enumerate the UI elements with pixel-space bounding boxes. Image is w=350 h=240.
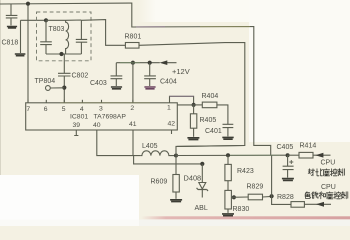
- node C405 junction: [286, 153, 290, 157]
- svg-text:39: 39: [73, 122, 81, 129]
- pink scan line bottom: [141, 216, 350, 219]
- svg-text:4: 4: [80, 106, 84, 113]
- svg-text:C401: C401: [205, 128, 222, 135]
- arrow +12V: [160, 60, 168, 65]
- ground (T803 left): [15, 54, 26, 56]
- wire R414 to arrow: [313, 154, 331, 156]
- node R423 junction: [226, 153, 230, 157]
- wire bus to R414: [288, 154, 299, 156]
- svg-text:R404: R404: [202, 93, 219, 100]
- wire R828 to arrow: [304, 203, 331, 205]
- svg-text:ABL: ABL: [195, 205, 208, 212]
- wire R830 tap to R829: [231, 196, 248, 198]
- svg-text:CPU: CPU: [321, 160, 336, 167]
- pin stub 6: [45, 100, 47, 103]
- svg-text:R405: R405: [200, 117, 217, 124]
- inductor L405: [141, 151, 176, 156]
- svg-text:R423: R423: [237, 168, 254, 175]
- wire L405 riser to R801 line: [176, 146, 245, 156]
- svg-text:42: 42: [168, 121, 176, 128]
- pin stub 42: [171, 130, 173, 134]
- capacitor C802: [58, 73, 71, 103]
- svg-text:C403: C403: [90, 80, 107, 87]
- pin stub 39: [74, 130, 78, 136]
- capacitor C818: [6, 4, 18, 25]
- capacitor C403: [111, 63, 123, 86]
- svg-text:R828: R828: [277, 194, 294, 201]
- node C404 junction: [148, 61, 152, 65]
- node C403 rail / pin2 junction: [131, 61, 135, 65]
- svg-text:TP804: TP804: [35, 78, 56, 85]
- wire IC right to node: [177, 104, 193, 106]
- wire T803 bottom to C802: [63, 54, 65, 73]
- wire pin2 drop: [132, 63, 134, 103]
- wire R404 to C401: [217, 105, 228, 124]
- pin stub 3: [101, 100, 103, 103]
- svg-text:T803: T803: [49, 26, 65, 33]
- svg-text:1: 1: [167, 105, 171, 112]
- wire T803 out to R801: [82, 20, 126, 46]
- capacitor (T803 right cap): [66, 20, 88, 54]
- node R829/R828 junction: [270, 194, 274, 198]
- wire R609 drop: [175, 156, 177, 175]
- wire T803 primary left: [21, 20, 47, 53]
- pin stub 7: [27, 100, 29, 103]
- node C802/TP804 junction: [62, 86, 66, 90]
- transformer T803 winding: [46, 20, 69, 54]
- capacitor C404: [144, 63, 156, 86]
- capacitor C401: [223, 124, 234, 136]
- svg-text:41: 41: [129, 121, 137, 128]
- test point TP804: [46, 86, 51, 91]
- ground (R609): [170, 200, 182, 202]
- pin stub 41 drop: [132, 130, 134, 156]
- ground (C403): [111, 87, 122, 89]
- ground (R830): [222, 214, 234, 216]
- node R404/R405 junction: [192, 103, 196, 107]
- wire pin7 drop: [27, 4, 29, 103]
- label contrast control: [308, 169, 344, 176]
- svg-text:C802: C802: [72, 73, 89, 80]
- resistor R405: [193, 105, 195, 114]
- node L405 out junction: [174, 154, 178, 158]
- svg-text:C404: C404: [160, 79, 177, 86]
- wire main bus: [176, 154, 288, 156]
- wire tint artifacts: [136, 26, 165, 28]
- svg-text:R414: R414: [300, 143, 317, 150]
- node T803 bottom junction: [59, 52, 63, 56]
- diode D408 zener: [201, 164, 203, 182]
- resistor R828: [291, 202, 304, 208]
- wire T803 bottom: [46, 53, 81, 55]
- svg-text:R829: R829: [247, 184, 264, 191]
- transformer T803 shield dashed box: [37, 12, 92, 61]
- wire R829 to vertical: [263, 195, 272, 198]
- capacitor (T803 left cap): [40, 20, 52, 54]
- svg-text:C818: C818: [2, 40, 19, 47]
- white scan area bottom strip: [0, 220, 350, 227]
- white scan area right block: [249, 0, 350, 142]
- resistor R829: [248, 194, 262, 200]
- pin stub 1 / wire pin1 jog to R404 node: [170, 96, 194, 105]
- resistor R609: [173, 175, 179, 193]
- arrow (to CPU saturation): [316, 202, 324, 207]
- arrow (to CPU contrast): [315, 153, 323, 158]
- white scan area bottom-left block: [0, 175, 139, 226]
- wire pin 40 to L405: [97, 130, 141, 156]
- svg-text:5: 5: [62, 106, 66, 113]
- plus sign C405: [289, 160, 293, 164]
- svg-text:CPU: CPU: [321, 184, 336, 191]
- ground (C404): [144, 87, 155, 89]
- svg-text:7: 7: [26, 106, 30, 113]
- resistor R404: [194, 104, 203, 106]
- resistor R830: [225, 190, 232, 209]
- wire lower branch to D408: [134, 156, 203, 164]
- svg-text:R801: R801: [125, 34, 142, 41]
- pin stub 4: [81, 100, 83, 103]
- wire vertical bus-to-R828: [272, 155, 291, 204]
- ground (C401): [222, 137, 233, 139]
- label saturation control: [305, 192, 348, 199]
- pin stub 2: [132, 100, 134, 103]
- capacitor C405 electrolytic: [283, 155, 294, 177]
- white scan area top-right strip: [156, 0, 350, 22]
- resistor R414: [299, 152, 313, 158]
- wire +12V rail: [116, 62, 176, 64]
- wire R801 to right column: [139, 43, 245, 147]
- node D408 junction: [200, 162, 204, 166]
- node T803 top junction: [44, 18, 48, 22]
- pin stub 5: [63, 100, 65, 103]
- resistor R423: [227, 155, 229, 164]
- svg-text:+12V: +12V: [172, 67, 190, 76]
- wire TP804 to node: [50, 87, 64, 89]
- wire top rail: [0, 3, 271, 155]
- svg-text:6: 6: [44, 106, 48, 113]
- IC U801 box: [26, 103, 178, 130]
- svg-text:D408: D408: [184, 174, 202, 183]
- svg-text:TA7698AP: TA7698AP: [94, 114, 127, 121]
- node R829 left junction: [232, 195, 236, 199]
- svg-text:IC801: IC801: [70, 114, 88, 121]
- svg-text:3: 3: [99, 106, 103, 113]
- svg-text:40: 40: [93, 122, 101, 129]
- svg-text:R830: R830: [233, 206, 250, 213]
- ground (C818): [7, 27, 17, 29]
- ground (C405): [282, 179, 294, 181]
- resistor R801: [125, 43, 139, 49]
- ground (R405): [187, 138, 199, 140]
- svg-text:2: 2: [130, 105, 134, 112]
- node top rail / pin7 junction: [26, 2, 30, 6]
- svg-text:L405: L405: [142, 143, 158, 150]
- svg-text:R609: R609: [151, 179, 168, 186]
- svg-text:C405: C405: [277, 144, 294, 151]
